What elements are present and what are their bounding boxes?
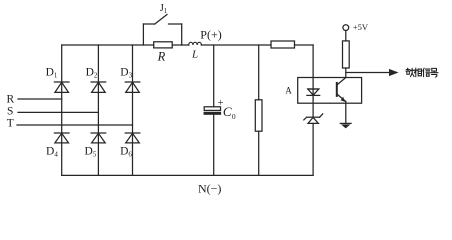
svg-text:D3: D3 (120, 67, 132, 80)
信 (423, 68, 430, 76)
wire phase S (18, 111, 98, 113)
svg-text:R: R (157, 50, 166, 64)
svg-text:N(−): N(−) (198, 181, 221, 195)
wire emitter lead (345, 102, 347, 124)
resistor bleeder (255, 100, 262, 131)
svg-text:P(+): P(+) (200, 27, 221, 41)
diode D6 (125, 133, 140, 143)
ground (340, 123, 351, 128)
resistor pull-up (343, 41, 350, 68)
wire bleeder leg (258, 45, 260, 175)
svg-text:D2: D2 (86, 67, 98, 80)
svg-text:D6: D6 (120, 146, 132, 159)
optocoupler U1 box (298, 78, 362, 104)
wire phase T (17, 124, 133, 126)
wire output arrow (346, 69, 399, 76)
diode D2 (91, 82, 106, 92)
diode D1 (54, 82, 69, 92)
wire bridge leg 2 (97, 45, 99, 175)
wire LED leg (312, 45, 314, 175)
relay contact J1 (143, 15, 181, 46)
wire bottom bus N(-) (62, 174, 313, 176)
svg-text:J1: J1 (160, 3, 168, 15)
resistor series top-right (271, 41, 295, 48)
resistor R (154, 42, 173, 48)
wire phase R (18, 98, 62, 100)
svg-text:D4: D4 (46, 146, 58, 159)
缺 (406, 68, 414, 76)
wire bridge leg 3 (132, 45, 134, 175)
wire +5V lead (345, 31, 347, 41)
svg-text:D5: D5 (85, 146, 97, 159)
svg-text:A: A (285, 86, 292, 96)
svg-text:R: R (7, 93, 15, 105)
svg-text:S: S (7, 105, 13, 117)
diode D3 (125, 82, 140, 92)
capacitor C0 (204, 107, 220, 114)
diode D4 (54, 133, 69, 143)
相 (414, 68, 421, 76)
LED in optocoupler (307, 89, 320, 95)
svg-text:L: L (191, 48, 198, 60)
wire bridge leg 1 (61, 45, 63, 175)
wire top bus P(+) (62, 44, 313, 46)
wire collector lead (345, 68, 347, 78)
svg-text:T: T (7, 118, 14, 130)
label 缺相信号 (phase-loss signal), hand-drawn glyphs (406, 68, 438, 77)
wire C0 leg (213, 45, 215, 175)
phototransistor in optocoupler (337, 78, 346, 102)
svg-text:D1: D1 (46, 67, 58, 80)
diode D5 (91, 133, 106, 143)
terminal +5V (343, 25, 349, 31)
zener diode (304, 114, 323, 124)
inductor L (189, 42, 202, 45)
svg-text:0: 0 (232, 112, 236, 121)
号 (431, 68, 438, 77)
svg-text:C: C (223, 104, 232, 119)
svg-text:+5V: +5V (353, 22, 369, 32)
